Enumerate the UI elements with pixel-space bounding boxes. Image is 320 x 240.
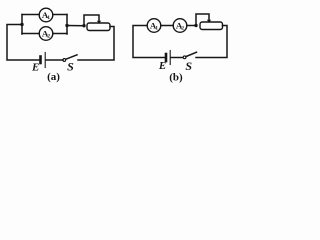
- svg-text:E: E: [158, 60, 166, 72]
- svg-text:S: S: [185, 59, 192, 73]
- svg-text:1: 1: [47, 15, 50, 21]
- svg-text:2: 2: [47, 34, 50, 40]
- svg-text:1: 1: [155, 26, 158, 32]
- svg-text:E: E: [31, 62, 39, 74]
- svg-text:(b): (b): [169, 72, 183, 84]
- svg-text:2: 2: [181, 26, 184, 32]
- svg-text:(a): (a): [47, 71, 60, 83]
- svg-text:S: S: [67, 60, 74, 74]
